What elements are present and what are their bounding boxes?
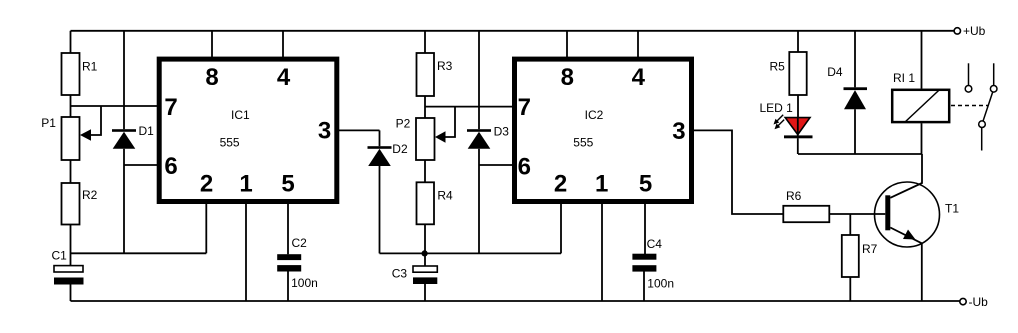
diode D4 xyxy=(844,87,868,90)
resistor R1 xyxy=(62,53,80,95)
arrow LED light emission 1 xyxy=(776,115,783,122)
wire P1 to R2 xyxy=(70,160,72,183)
svg-text:5: 5 xyxy=(281,170,294,197)
wire IC2 pin 1 to ground xyxy=(601,201,603,302)
svg-text:R5: R5 xyxy=(770,59,786,73)
svg-text:7: 7 xyxy=(518,94,531,121)
wire IC2 pin 8 stub xyxy=(566,31,568,59)
arrow P2 wiper head xyxy=(435,131,446,142)
svg-text:-Ub: -Ub xyxy=(969,295,989,309)
svg-text:C3: C3 xyxy=(392,266,408,280)
svg-text:5: 5 xyxy=(639,170,652,197)
wire D1 branch top xyxy=(123,31,125,129)
switch pole blade xyxy=(979,121,986,128)
capacitor C4 xyxy=(632,254,656,260)
diode D1 xyxy=(112,129,136,132)
svg-text:7: 7 xyxy=(164,94,177,121)
wire R2 down to C1 xyxy=(70,225,72,266)
wire node LED/D4/collector xyxy=(798,153,922,155)
svg-text:8: 8 xyxy=(561,64,574,91)
wire R5 top stub xyxy=(797,31,799,52)
svg-text:1: 1 xyxy=(595,170,608,197)
potentiometer P2 xyxy=(416,118,435,160)
wire T1 emitter xyxy=(890,228,922,302)
svg-text:100n: 100n xyxy=(291,276,318,290)
svg-text:P1: P1 xyxy=(41,116,56,130)
svg-text:D4: D4 xyxy=(827,65,843,79)
wire IC2 pin 3 to R6 xyxy=(692,130,784,214)
wire node 6 left (to IC1 pin 6) xyxy=(124,164,159,166)
capacitor C3 xyxy=(413,266,437,272)
svg-text:4: 4 xyxy=(277,64,291,91)
wire node 7 middle (to IC2 pin 7) xyxy=(425,106,515,108)
svg-text:R2: R2 xyxy=(82,188,98,202)
svg-text:8: 8 xyxy=(205,64,218,91)
wire D4 top xyxy=(854,31,856,88)
resistor R5 xyxy=(789,52,806,95)
svg-text:IC2: IC2 xyxy=(585,108,604,122)
wire R6 to base xyxy=(829,213,885,215)
diode D3 xyxy=(467,129,491,132)
wire P1 wiper xyxy=(91,106,101,135)
wire IC1 pin 8 stub xyxy=(211,31,213,59)
wire node 2 middle xyxy=(380,252,562,254)
arrow T1 emitter head xyxy=(903,230,916,240)
svg-text:+Ub: +Ub xyxy=(963,24,986,38)
wire relay top stub xyxy=(921,31,923,89)
wire IC2 pin 2 stub xyxy=(560,201,562,254)
potentiometer P1 xyxy=(62,117,80,160)
svg-text:LED 1: LED 1 xyxy=(760,101,794,115)
wire C1 bottom xyxy=(70,285,72,302)
wire D4 bottom xyxy=(854,109,856,154)
svg-text:C2: C2 xyxy=(292,236,308,250)
terminal +Ub xyxy=(954,28,960,34)
wire middle rail top segment xyxy=(424,31,426,53)
wire T1 collector xyxy=(890,154,922,198)
svg-text:6: 6 xyxy=(518,153,531,180)
resistor R2 xyxy=(62,183,80,225)
wire D2 bottom xyxy=(379,166,381,253)
wire P2 to R4 xyxy=(424,160,426,182)
resistor R6 xyxy=(783,206,829,222)
wire dashed relay link xyxy=(951,105,989,107)
svg-text:D1: D1 xyxy=(139,124,155,138)
svg-text:4: 4 xyxy=(632,64,646,91)
wire R7 bottom xyxy=(849,277,851,301)
wire R5 to LED xyxy=(797,95,799,117)
svg-text:T1: T1 xyxy=(945,201,959,215)
wire IC1 pin 1 to ground xyxy=(245,201,247,302)
switch fixed contact A xyxy=(968,63,970,85)
wire bottom supply rail xyxy=(71,300,960,302)
wire R1 to P1 xyxy=(70,95,72,117)
wire node 7 left (to IC1 pin 7) xyxy=(71,105,160,107)
svg-text:D2: D2 xyxy=(392,142,408,156)
wire IC1 pin 2 stub xyxy=(205,201,207,254)
wire R4 down to node xyxy=(424,224,426,253)
wire left rail top segment xyxy=(70,31,72,53)
op-amp IC2 box xyxy=(515,59,692,201)
svg-text:C1: C1 xyxy=(52,248,68,262)
svg-text:3: 3 xyxy=(318,118,331,145)
transistor T1 xyxy=(875,182,940,247)
wire D3 bottom xyxy=(478,149,480,254)
resistor R7 xyxy=(842,235,859,277)
svg-text:6: 6 xyxy=(164,153,177,180)
wire R7 top stub xyxy=(849,214,851,235)
terminal -Ub xyxy=(960,298,966,304)
svg-text:R7: R7 xyxy=(862,242,878,256)
arrow LED light emission 2 xyxy=(777,120,784,127)
svg-text:555: 555 xyxy=(573,136,593,150)
svg-text:RI 1: RI 1 xyxy=(893,71,915,85)
wire D3 branch top xyxy=(478,31,480,129)
wire IC1 pin 4 stub xyxy=(282,31,284,59)
svg-text:IC1: IC1 xyxy=(231,108,250,122)
svg-text:R3: R3 xyxy=(437,59,453,73)
wire C3 top xyxy=(424,253,426,266)
wire IC2 pin 4 stub xyxy=(637,31,639,59)
svg-text:R6: R6 xyxy=(786,189,802,203)
relay RI1 coil xyxy=(892,90,949,122)
op-amp IC1 box xyxy=(159,59,337,201)
wire IC1 pin 3 xyxy=(337,129,380,131)
wire relay bottom stub xyxy=(921,123,923,154)
diode D2 xyxy=(368,146,392,149)
wire R3 to P2 xyxy=(424,96,426,118)
svg-text:2: 2 xyxy=(554,170,567,197)
wire C4 bottom xyxy=(643,271,645,301)
wire D1 bottom xyxy=(123,149,125,254)
arrow P1 wiper head xyxy=(80,129,91,140)
wire IC1 pin 5 stub xyxy=(287,201,289,255)
svg-text:P2: P2 xyxy=(396,117,411,131)
svg-text:D3: D3 xyxy=(494,124,510,138)
wire node 2 left (to IC1 pin 2) xyxy=(71,252,207,254)
svg-text:2: 2 xyxy=(200,170,213,197)
svg-text:1: 1 xyxy=(239,170,252,197)
svg-text:C4: C4 xyxy=(647,237,663,251)
wire top supply rail xyxy=(71,30,955,32)
svg-text:100n: 100n xyxy=(647,276,674,290)
wire node 6 middle (to IC2 pin 6) xyxy=(479,164,515,166)
wire IC2 pin 5 stub xyxy=(644,201,646,255)
wire LED bottom xyxy=(797,138,799,154)
resistor R3 xyxy=(417,53,435,96)
capacitor C2 xyxy=(277,254,301,260)
wire D2 top xyxy=(379,130,381,146)
capacitor C1 xyxy=(54,266,83,272)
junction node dot xyxy=(422,250,428,256)
svg-text:R4: R4 xyxy=(437,189,453,203)
wire P2 wiper xyxy=(446,107,456,137)
switch fixed contact B xyxy=(993,63,995,85)
wire C2 bottom xyxy=(287,272,289,302)
svg-text:R1: R1 xyxy=(82,59,98,73)
wire C3 bottom xyxy=(424,284,426,301)
LED LED1 xyxy=(785,118,810,135)
svg-text:555: 555 xyxy=(220,136,240,150)
svg-text:3: 3 xyxy=(672,118,685,145)
resistor R4 xyxy=(417,182,435,224)
